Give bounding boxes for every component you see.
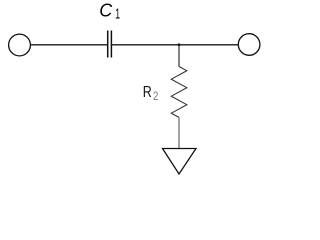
terminal left port bbox=[9, 34, 31, 56]
svg-text:2: 2 bbox=[153, 90, 158, 103]
capacitor C1 bbox=[108, 31, 112, 58]
node junction dot bbox=[178, 43, 181, 46]
wire right segment bbox=[112, 44, 239, 46]
label R2 bbox=[143, 83, 159, 103]
wire from resistor down to ground bbox=[178, 117, 180, 148]
svg-text:1: 1 bbox=[115, 5, 120, 22]
wire left segment bbox=[30, 44, 107, 46]
svg-text:C: C bbox=[99, 0, 113, 20]
terminal right port bbox=[238, 34, 260, 56]
svg-text:R: R bbox=[143, 83, 152, 101]
label C1 bbox=[99, 0, 120, 22]
resistor R2 bbox=[171, 67, 187, 118]
wire from node down to resistor bbox=[178, 45, 180, 67]
ground bbox=[163, 149, 197, 175]
